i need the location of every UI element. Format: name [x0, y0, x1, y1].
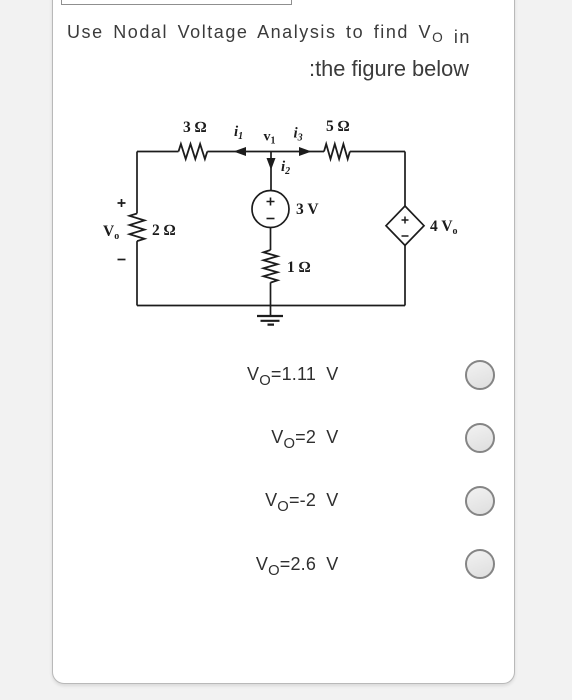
resistor 3ohm	[179, 144, 208, 159]
option 2 radio	[465, 423, 495, 453]
svg-text:1 Ω: 1 Ω	[287, 259, 311, 276]
option 1 text	[247, 364, 339, 385]
svg-text:3 Ω: 3 Ω	[183, 119, 207, 136]
wire top-mid-right	[271, 151, 324, 153]
wire top-right segment	[350, 151, 405, 153]
wire center lower to ground	[270, 282, 272, 316]
circuit schematic	[60, 100, 480, 350]
wire right vertical upper	[404, 152, 406, 207]
ground	[257, 316, 283, 325]
wire top-left segment	[137, 151, 179, 153]
svg-text:5 Ω: 5 Ω	[326, 118, 350, 135]
wire center upper	[270, 152, 272, 191]
svg-text:4 Vo: 4 Vo	[430, 218, 458, 237]
question line 2	[309, 56, 469, 82]
option 3 text	[265, 490, 338, 511]
minus in diamond	[402, 235, 409, 237]
arrow i1 (points left)	[234, 147, 247, 156]
resistor 1ohm vertical	[264, 250, 278, 283]
plus in diamond	[402, 217, 409, 224]
option 1 radio	[465, 360, 495, 390]
dependent source diamond 4Vo	[386, 206, 424, 245]
resistor 5ohm	[324, 144, 350, 159]
wire center mid	[270, 228, 272, 251]
svg-text:Vo: Vo	[103, 223, 119, 242]
arrow i2 (points down)	[267, 158, 276, 170]
option 4 radio	[465, 549, 495, 579]
svg-text:i3: i3	[294, 126, 303, 144]
arrow i3 (points right)	[299, 147, 312, 156]
option 2 text	[271, 427, 338, 448]
wire bottom	[137, 305, 405, 307]
plus in circle	[267, 198, 275, 206]
voltage source 3V circle	[252, 191, 289, 228]
svg-text:3 V: 3 V	[296, 201, 319, 218]
minus in circle	[267, 218, 275, 220]
svg-text:v1: v1	[264, 130, 276, 147]
wire left vertical lower	[136, 241, 138, 305]
card	[52, 0, 515, 684]
svg-text:2 Ω: 2 Ω	[152, 222, 176, 239]
wire top-mid-left	[207, 151, 271, 153]
wire right vertical lower	[404, 245, 406, 305]
question line 1	[67, 21, 471, 43]
resistor 2ohm vertical	[130, 214, 145, 242]
svg-text:i2: i2	[281, 159, 290, 177]
svg-text:i1: i1	[234, 124, 243, 142]
plus left	[118, 199, 126, 207]
minus left	[118, 259, 126, 261]
cropped box at top	[61, 0, 292, 5]
option 3 radio	[465, 486, 495, 516]
wire left vertical upper	[136, 152, 138, 214]
option 4 text	[256, 554, 339, 575]
